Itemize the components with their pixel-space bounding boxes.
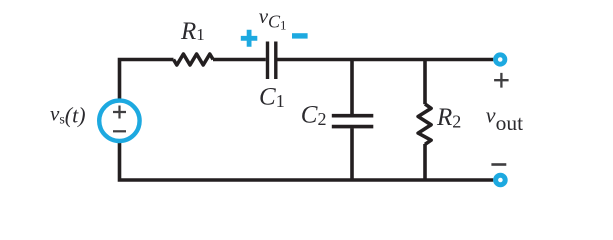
wire: C1 to output terminal (top rail) — [278, 58, 494, 62]
wire: node B down to R2 — [423, 61, 427, 104]
voltage source minus mark — [113, 130, 126, 132]
polarity plus for vC1 (cyan) — [241, 30, 257, 47]
svg-text:C1: C1 — [259, 83, 285, 111]
wire: bottom rail from source to output terminal — [118, 143, 494, 180]
capacitor C2 — [332, 116, 374, 127]
svg-text:R1: R1 — [180, 18, 205, 45]
svg-text:C2: C2 — [301, 101, 327, 129]
polarity minus for vC1 (cyan) — [292, 33, 308, 38]
svg-text:vs(t): vs(t) — [50, 101, 86, 127]
wire: node A down to C2 — [350, 61, 354, 114]
wire: R1 to C1 — [213, 58, 266, 62]
resistor R2 — [418, 104, 431, 144]
output terminal node vout+ — [496, 55, 505, 64]
polarity minus for vout — [491, 163, 506, 166]
svg-text:vout: vout — [486, 103, 523, 135]
polarity plus for vout — [494, 73, 509, 88]
capacitor C1 — [268, 42, 276, 80]
voltage source plus mark — [113, 106, 126, 119]
output terminal node vout- — [496, 175, 506, 185]
resistor R1 — [174, 54, 214, 65]
wire: R2 to bottom rail — [423, 144, 427, 179]
wire: C2 to bottom rail — [350, 128, 354, 178]
svg-text:R2: R2 — [436, 104, 461, 132]
voltage source VS circle — [99, 101, 139, 141]
wire: source top to top-left corner to R1 — [118, 60, 174, 100]
svg-text:vC1: vC1 — [259, 4, 287, 32]
